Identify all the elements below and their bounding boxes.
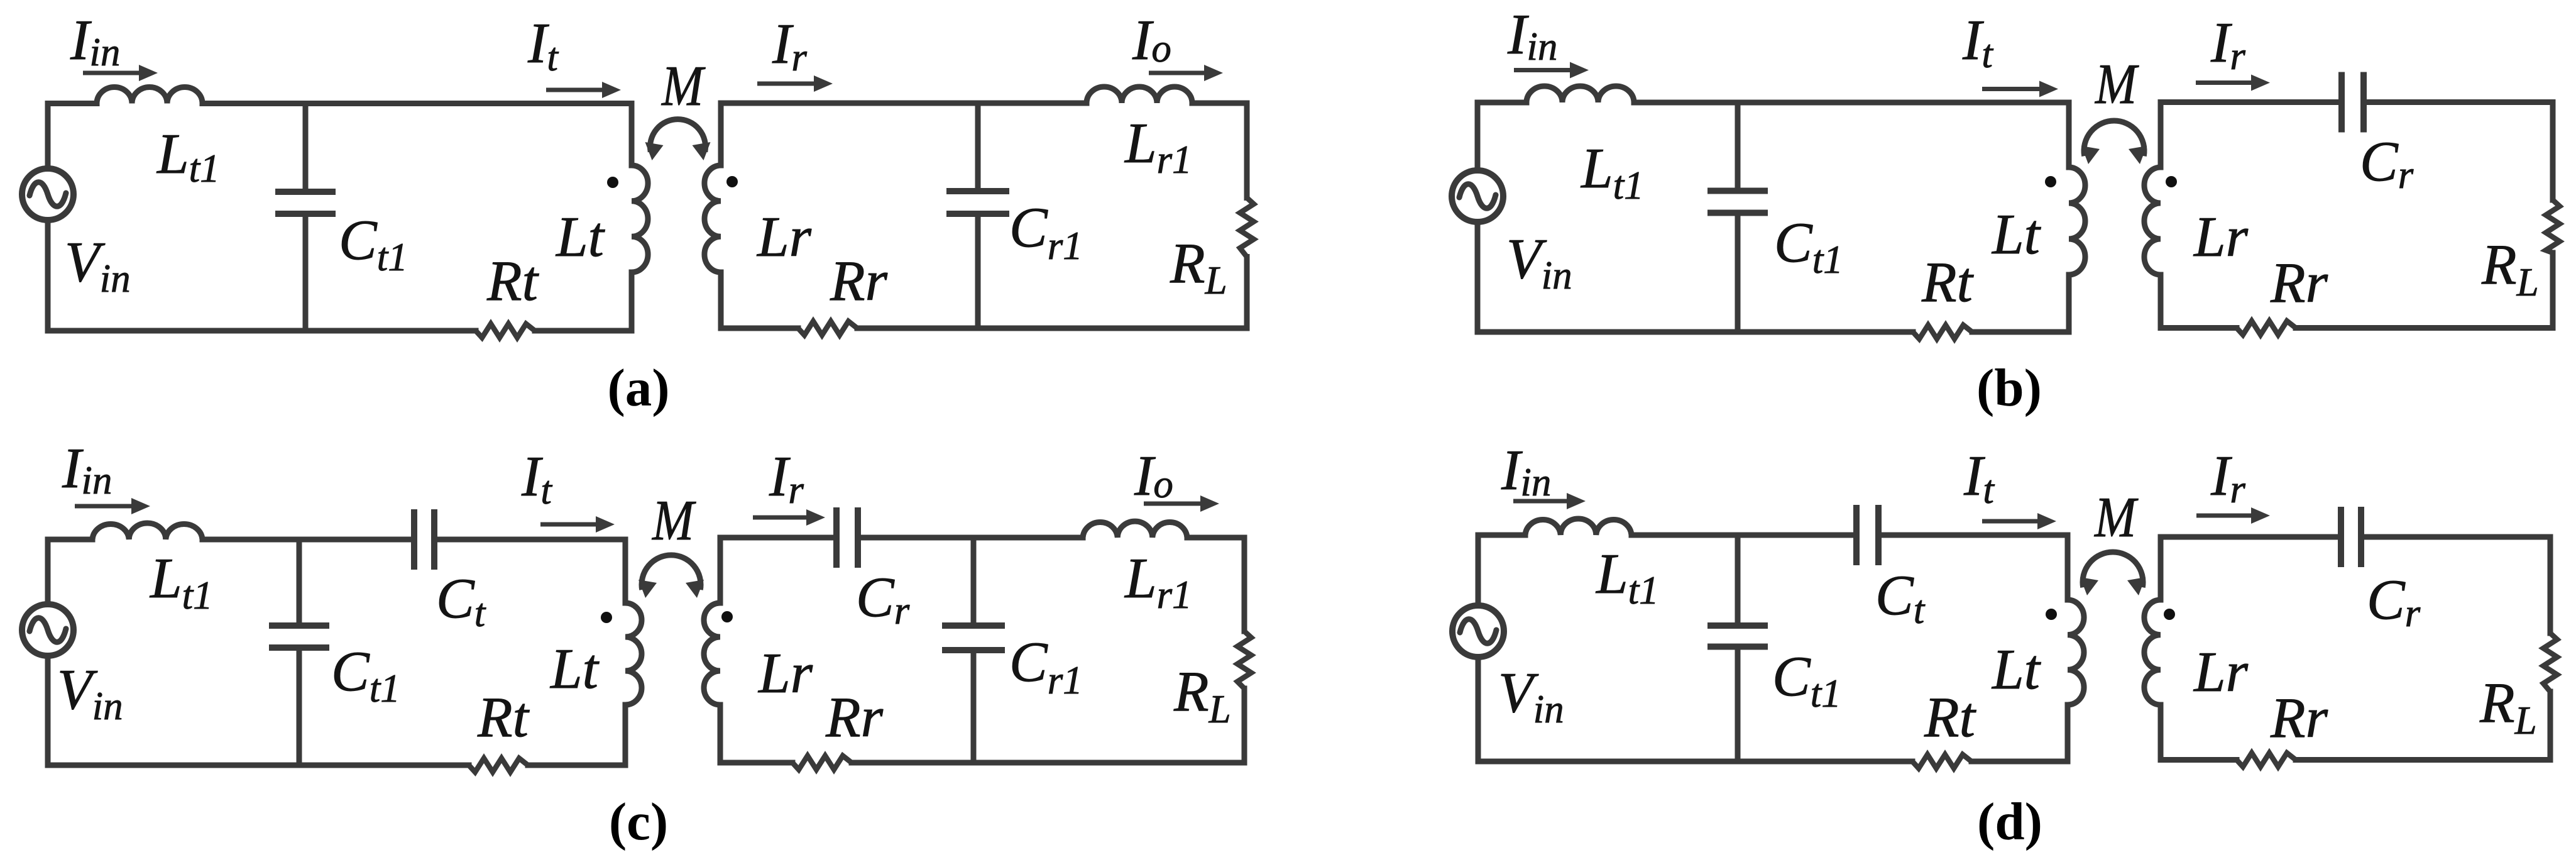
wire a primary top-left segment [48,101,97,106]
wire c secondary bottom rail left [720,760,792,766]
wire a Lr column upper [718,103,724,165]
arrow Ir (a) [757,75,833,92]
svg-text:Lr1: Lr1 [1124,546,1192,617]
wire d secondary bottom rail left [2161,757,2237,763]
label Iin (b) [1507,3,1557,69]
wire c load column lower [1242,688,1247,763]
label Vin (d) [1498,661,1564,731]
inductor Lr coil (a) [704,165,721,272]
AC voltage source Vin (d) [1452,605,1504,657]
label Io (a) [1132,8,1171,72]
svg-text:Cr: Cr [2367,568,2421,635]
capacitor Cr (b) [2342,72,2364,133]
wire d Lr column lower [2158,705,2164,760]
wire a Lr column lower [718,272,724,328]
label Cr (b) [2360,130,2414,197]
wire d primary bottom rail right [1971,759,2068,765]
label Ct1 (c) [331,639,400,710]
wire a Lt column upper [629,104,635,166]
svg-text:Io: Io [1134,444,1173,507]
wire b Ct1 lower lead [1735,213,1741,333]
label Rt (c) [477,685,530,749]
svg-text:RL: RL [2479,671,2537,743]
label Lt (a) [555,205,606,268]
resistor Rr (b) [2237,321,2296,335]
label Lr (c) [757,641,813,705]
svg-text:Cr: Cr [856,565,910,633]
label Ct (d) [1875,563,1926,632]
svg-text:Lt1: Lt1 [1580,136,1644,207]
svg-text:RL: RL [2481,233,2539,304]
svg-text:M: M [2094,52,2139,116]
svg-text:Lt: Lt [1991,202,2042,266]
dot mark Lt (b) [2045,176,2056,187]
wire a secondary bottom rail right [857,326,1247,331]
svg-text:Ct1: Ct1 [1774,211,1843,282]
label Lt (b) [1991,202,2042,266]
resistor Rr (d) [2237,753,2296,767]
resistor Rt (c) [469,758,528,772]
wire d top rail Lr to Cr [2161,534,2341,540]
wire b primary top-left segment [1477,100,1526,106]
inductor Lt coil (a) [632,165,648,272]
svg-text:Ct1: Ct1 [1772,644,1841,716]
wire c Lr column upper [718,538,723,603]
svg-text:Rr: Rr [2270,251,2328,314]
svg-text:It: It [1963,444,1995,512]
label Lt1 (c) [149,546,213,617]
svg-text:Vin: Vin [1506,227,1572,297]
wire c Cr1 lower lead [971,650,977,763]
wire c top rail Lr1 to load [1187,535,1244,541]
arrow Ir (d) [2196,507,2270,524]
wire d Lt column upper [2065,535,2071,600]
svg-text:Lt: Lt [1991,638,2042,701]
arrow Iin (b) [1514,62,1589,79]
svg-text:Rr: Rr [825,685,884,749]
svg-text:Ir: Ir [2210,11,2245,78]
resistor Rr (c) [792,756,852,770]
wire c left vertical lower [45,658,51,765]
capacitor Cr1 (c) [942,626,1005,650]
arrow Ir (b) [2196,75,2270,91]
capacitor Ct (c) [414,509,434,570]
inductor Lt1 (c) [92,523,202,539]
AC voltage source Vin (c) [22,604,74,656]
svg-text:Lr: Lr [2193,640,2249,704]
resistor Rt (d) [1912,754,1971,768]
svg-text:Lr: Lr [757,641,813,705]
label M (d) [2093,485,2138,549]
wire a load column upper [1244,103,1250,198]
inductor Lt1 (a) [97,87,202,104]
svg-text:Cr1: Cr1 [1009,630,1083,702]
wire b primary bottom rail right [1972,329,2069,335]
label M (c) [651,489,696,552]
label Lr (b) [2193,205,2249,268]
label Cr (d) [2367,568,2421,635]
wire d primary top-left segment [1478,533,1525,538]
label Lt1 (b) [1580,136,1644,207]
svg-text:It: It [1962,8,1993,76]
capacitor Ct1 (b) [1707,191,1768,213]
svg-text:Cr: Cr [2360,130,2414,197]
wire b load column upper [2550,102,2556,201]
resistor Rt (b) [1913,325,1972,339]
capacitor Ct1 (c) [269,626,329,648]
wire d top rail Ct to Lt [1878,533,2068,538]
capacitor Ct1 (d) [1707,626,1768,647]
svg-text:Iin: Iin [1507,3,1557,69]
wire c Lt column upper [623,539,628,603]
label Lt1 (a) [156,122,220,191]
svg-text:Lr1: Lr1 [1124,111,1192,182]
label Cr (c) [856,565,910,633]
wire a Ct1 upper lead [303,104,309,192]
svg-text:Vin: Vin [1498,661,1564,731]
svg-text:Lt1: Lt1 [156,122,220,191]
label RL (a) [1170,231,1227,302]
label Vin (a) [65,230,131,301]
svg-text:M: M [660,54,705,118]
wire b top rail Lr to Cr [2161,99,2342,105]
label Ir (a) [772,12,807,79]
resistor Rr (a) [798,321,857,335]
arrow It (a) [546,82,621,98]
svg-text:Rr: Rr [830,249,888,312]
AC voltage source Vin (a) [22,169,74,220]
wire a Cr1 upper lead [975,103,981,191]
wire a primary bottom rail left [48,328,476,334]
label Lr1 (a) [1124,111,1192,182]
svg-text:Rt: Rt [486,249,540,312]
wire a top rail Lt1 to Lt [202,101,632,106]
svg-text:Cr1: Cr1 [1009,196,1083,268]
wire b primary bottom rail left [1477,329,1913,335]
label Ir (c) [769,445,804,512]
wire d Lr column upper [2158,537,2164,600]
label Ir (b) [2210,11,2245,78]
svg-text:Lt1: Lt1 [149,546,213,617]
label Lt1 (d) [1595,542,1659,612]
svg-text:Vin: Vin [65,230,131,301]
inductor Lt1 (b) [1526,86,1634,102]
wire d Lt column lower [2065,705,2071,761]
svg-text:RL: RL [1173,660,1231,731]
label Ct1 (b) [1774,211,1843,282]
inductor Lt coil (d) [2068,600,2084,705]
capacitor Ct1 (a) [275,192,336,214]
svg-text:Io: Io [1132,8,1171,72]
resistor Rt (a) [476,324,535,338]
wire d left vertical lower [1476,660,1481,761]
label RL (d) [2479,671,2537,743]
wire a left vertical lower [45,223,51,331]
svg-text:(b): (b) [1976,358,2042,417]
inductor Lt coil (c) [625,603,642,705]
wire c primary bottom rail right [528,763,625,768]
capacitor Ct (d) [1856,505,1878,565]
label Rr (d) [2270,686,2328,749]
svg-text:M: M [651,489,696,552]
wire a Lt column lower [629,272,635,331]
svg-text:Rr: Rr [2270,686,2328,749]
resistor RL (b) [2546,200,2560,253]
arrow Ir (c) [753,509,825,526]
svg-text:Ct1: Ct1 [339,208,408,279]
mutual inductance arc M (c) [639,555,704,598]
AC voltage source Vin (b) [1452,170,1503,222]
svg-text:(a): (a) [607,358,669,417]
label RL (c) [1173,660,1231,731]
wire b load column lower [2550,253,2556,328]
wire c top rail Lt1 to Ct [202,537,414,543]
svg-text:Ir: Ir [772,12,807,79]
wire c load column upper [1242,538,1247,631]
wire b left vertical lower [1475,224,1481,332]
inductor Lr coil (b) [2144,167,2161,275]
label M (a) [660,54,705,118]
svg-text:It: It [527,11,559,79]
dot mark Lr (b) [2166,176,2177,187]
svg-text:Iin: Iin [1501,438,1551,504]
label Rr (b) [2270,251,2328,314]
svg-text:RL: RL [1170,231,1227,302]
label It (b) [1962,8,1993,76]
wire b Ct1 upper lead [1735,102,1741,191]
svg-text:Rt: Rt [477,685,530,749]
svg-text:Lt: Lt [555,205,606,268]
svg-text:Vin: Vin [57,658,123,728]
svg-text:Ct: Ct [436,566,486,635]
label Lr1 (c) [1124,546,1192,617]
dot mark Lr (c) [721,611,733,622]
resistor RL (c) [1237,631,1251,688]
label Cr1 (c) [1009,630,1083,702]
svg-text:Iin: Iin [70,8,120,74]
wire d Ct1 lower lead [1735,647,1741,762]
caption (d) [1977,792,2042,851]
label Vin (c) [57,658,123,728]
mutual inductance arc M (a) [645,119,711,160]
svg-text:Lt: Lt [549,637,600,700]
inductor Lr1 (a) [1087,87,1192,103]
dot mark Lr (d) [2164,609,2175,620]
wire d load column lower [2548,692,2553,760]
label Iin (a) [70,8,120,74]
svg-text:Ir: Ir [2210,444,2245,511]
wire a top rail to Lr1 [721,101,1087,106]
arrow Iin (a) [83,65,158,81]
wire c left vertical upper [45,539,51,602]
label It (d) [1963,444,1995,512]
resistor RL (d) [2543,633,2557,692]
svg-text:(d): (d) [1977,792,2042,851]
wire c primary bottom rail left [48,763,469,768]
arrow Iin (d) [1513,493,1586,509]
dot mark Lt (a) [607,177,618,188]
label Lr (d) [2193,640,2249,704]
label M (b) [2094,52,2139,116]
label Lt (d) [1991,638,2042,701]
label Iin (d) [1501,438,1551,504]
label It (a) [527,11,559,79]
wire d secondary bottom rail right [2296,757,2550,763]
wire c Cr1 upper lead [971,538,977,626]
wire c Lt column lower [623,705,628,765]
wire b secondary bottom rail left [2161,325,2237,331]
inductor Lr1 (c) [1083,521,1187,538]
svg-text:Lr: Lr [756,205,812,268]
inductor Lt coil (b) [2069,167,2085,275]
label Io (c) [1134,444,1173,507]
capacitor Cr (d) [2341,507,2361,567]
wire a primary bottom rail right [535,328,632,334]
svg-text:Lr: Lr [2193,205,2249,268]
inductor Lt1 (d) [1525,519,1631,535]
arrow Io (c) [1144,495,1219,512]
svg-text:Rt: Rt [1921,250,1975,314]
label Rt (d) [1924,685,1977,749]
wire a Cr1 lower lead [975,214,981,328]
wire c Ct1 upper lead [297,539,302,626]
arrow It (c) [540,516,615,533]
dot mark Lt (c) [601,612,612,623]
wire d top rail to load [2361,534,2550,540]
caption (b) [1976,358,2042,417]
wire c top rail Ct to Lt [434,537,625,543]
resistor RL (a) [1240,198,1254,257]
wire c top rail to Lr1 [858,535,1083,541]
arrow It (d) [1982,513,2056,529]
wire b left vertical upper [1475,102,1481,168]
inductor Lr coil (d) [2144,600,2161,705]
label Rr (c) [825,685,884,749]
wire a left vertical upper [45,104,51,167]
wire c primary top-left segment [48,537,92,543]
label RL (b) [2481,233,2539,304]
mutual inductance arc M (b) [2081,121,2147,164]
mutual inductance arc M (d) [2080,552,2146,595]
wire b Lt column lower [2066,275,2072,332]
svg-text:Ct1: Ct1 [331,639,400,710]
label Iin (c) [62,436,112,502]
svg-text:M: M [2093,485,2138,549]
wire b top rail Lt1 to Lt [1634,100,2069,106]
svg-text:Lt1: Lt1 [1595,542,1659,612]
wire c top rail Lr to Cr [720,535,836,541]
label Vin (b) [1506,227,1572,297]
dot mark Lr (a) [726,176,738,187]
arrow It (b) [1982,81,2058,97]
wire a Ct1 lower lead [303,214,309,331]
label Ir (d) [2210,444,2245,511]
wire d Ct1 upper lead [1735,535,1741,626]
svg-text:Ir: Ir [769,445,804,512]
wire c Ct1 lower lead [297,648,302,765]
label Rt (a) [486,249,540,312]
wire d primary bottom rail left [1478,759,1912,765]
dot mark Lt (d) [2046,609,2057,620]
wire b Lt column upper [2066,102,2072,167]
label Ct1 (d) [1772,644,1841,716]
label It (c) [521,445,552,512]
wire d load column upper [2548,537,2553,633]
wire a load column lower [1244,257,1250,329]
wire b top rail to load [2364,99,2553,105]
label Lt (c) [549,637,600,700]
label Rt (b) [1921,250,1975,314]
label Rr (a) [830,249,888,312]
label Cr1 (a) [1009,196,1083,268]
wire d top rail Lt1 to Ct [1631,533,1856,538]
wire c Lr column lower [718,705,723,763]
capacitor Cr (c) [836,507,858,568]
arrow Iin (c) [75,498,150,514]
caption (a) [607,358,669,417]
wire d left vertical upper [1476,535,1481,603]
svg-text:Rt: Rt [1924,685,1977,749]
wire b secondary bottom rail right [2296,325,2553,331]
caption (c) [609,792,668,851]
label Lr (a) [756,205,812,268]
wire a top rail Lr1 to load [1192,101,1247,106]
wire c secondary bottom rail right [852,760,1244,766]
svg-text:Iin: Iin [62,436,112,502]
wire a secondary bottom rail left [721,326,798,331]
wire b Lr column lower [2158,275,2164,328]
arrow Io (a) [1149,65,1223,81]
label Ct1 (a) [339,208,408,279]
label Ct (c) [436,566,486,635]
svg-text:It: It [521,445,552,512]
inductor Lr coil (c) [704,603,720,705]
capacitor Cr1 (a) [946,191,1009,214]
wire b Lr column upper [2158,102,2164,168]
svg-text:(c): (c) [609,792,668,851]
svg-text:Ct: Ct [1875,563,1926,632]
